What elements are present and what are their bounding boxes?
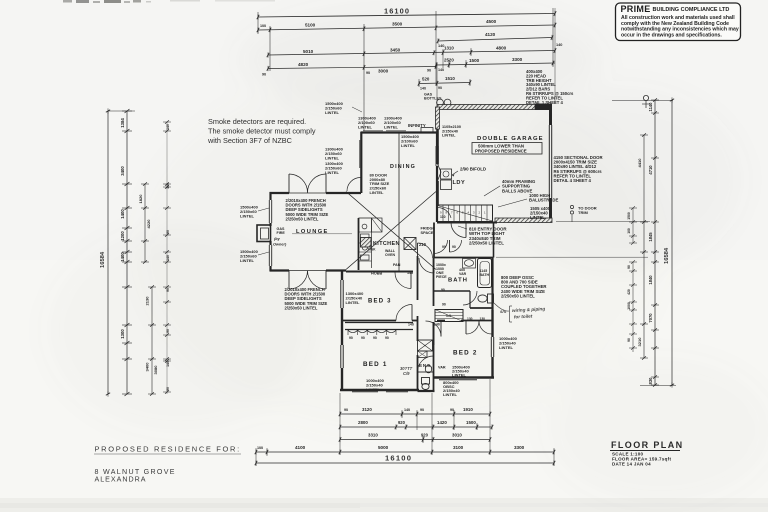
svg-text:100: 100	[627, 228, 631, 234]
left dimension chain	[126, 111, 128, 394]
svg-text:BUILDING COMPLIANCE LTD: BUILDING COMPLIANCE LTD	[653, 7, 730, 13]
porch entry door arc	[451, 223, 466, 238]
stair entry arc	[438, 208, 452, 218]
garage bottom wall hatched	[495, 218, 552, 223]
svg-text:3010: 3010	[452, 433, 462, 438]
svg-text:SPACE: SPACE	[421, 231, 434, 235]
ceiling diagonals	[346, 192, 436, 270]
svg-text:BED 3: BED 3	[368, 299, 392, 305]
svg-text:2/250x50 LINTEL: 2/250x50 LINTEL	[469, 241, 504, 246]
svg-text:1400: 1400	[120, 209, 125, 219]
svg-text:2130: 2130	[145, 296, 150, 306]
bottom dimension line 3120 1910	[340, 413, 490, 415]
svg-text:140: 140	[434, 323, 440, 327]
ens basin	[425, 365, 431, 373]
ens nook bottom wall	[418, 390, 435, 392]
svg-text:LINTEL: LINTEL	[325, 110, 340, 115]
svg-text:VAR: VAR	[459, 272, 467, 276]
bed wing left exterior wall	[341, 271, 343, 281]
svg-text:3300: 3300	[514, 445, 525, 450]
ens toilet	[422, 378, 430, 385]
kitchen sink	[362, 224, 367, 229]
svg-text:16584: 16584	[664, 247, 670, 264]
left sub chain 1820 4220	[144, 184, 146, 262]
right chain top symbol	[643, 95, 648, 100]
lounge french doors bottom	[288, 271, 290, 290]
svg-text:2/250x50 LINTEL: 2/250x50 LINTEL	[501, 293, 535, 298]
top dimension line 5010 3450 1310 4800	[268, 51, 555, 56]
svg-text:90: 90	[627, 265, 631, 269]
svg-text:LINTEL: LINTEL	[442, 134, 456, 138]
lounge left wall	[269, 192, 271, 200]
svg-text:16100: 16100	[384, 7, 410, 16]
svg-text:3100: 3100	[453, 445, 464, 450]
svg-text:(by: (by	[274, 237, 281, 241]
svg-text:1910: 1910	[463, 407, 473, 412]
svg-text:LINTEL: LINTEL	[401, 143, 416, 148]
svg-text:140: 140	[166, 361, 170, 367]
dining top wall	[361, 131, 438, 133]
bed1 robe scallops	[348, 330, 358, 333]
svg-text:140: 140	[166, 255, 170, 261]
svg-text:520: 520	[422, 77, 430, 82]
svg-text:830: 830	[648, 377, 653, 385]
svg-text:1300: 1300	[120, 329, 125, 339]
infinity unit	[421, 128, 433, 133]
bed2 top wall	[437, 320, 445, 322]
dining kitchen divider	[398, 133, 400, 271]
svg-text:16100: 16100	[385, 454, 412, 463]
svg-text:140: 140	[420, 87, 426, 91]
entry hall walls	[433, 223, 435, 259]
kitchen upper bench	[372, 218, 383, 232]
svg-text:BOTTLES: BOTTLES	[424, 97, 442, 101]
svg-text:LINTEL: LINTEL	[499, 345, 514, 350]
svg-text:1820: 1820	[138, 194, 143, 204]
hall east wall	[433, 258, 435, 306]
svg-text:Smoke detectors are required.: Smoke detectors are required.	[208, 117, 306, 126]
svg-text:7070: 7070	[648, 313, 653, 323]
svg-text:140: 140	[407, 271, 413, 275]
svg-text:110: 110	[440, 215, 446, 219]
svg-text:5010: 5010	[303, 49, 314, 54]
right sub chain 4410 3210	[643, 135, 645, 358]
svg-text:TRIM: TRIM	[578, 210, 588, 215]
bath top wall	[434, 257, 493, 259]
svg-text:LINTEL: LINTEL	[358, 124, 373, 129]
left tick chain with 140 90 labels	[166, 122, 168, 394]
svg-text:3080: 3080	[153, 365, 158, 375]
svg-text:1140: 1140	[648, 102, 653, 112]
svg-text:5000: 5000	[378, 445, 389, 450]
top dimension line 4120	[438, 38, 552, 42]
svg-text:90: 90	[450, 408, 454, 412]
svg-text:4820: 4820	[298, 62, 309, 67]
to door trim note	[570, 205, 573, 208]
svg-text:LOUNGE: LOUNGE	[296, 229, 329, 235]
dining door arc	[347, 178, 361, 192]
top dimension line 4820 3000	[268, 67, 436, 69]
svg-text:KITCHEN: KITCHEN	[373, 241, 400, 247]
bath vanity	[463, 259, 476, 269]
svg-text:with Section 3F7 of NZBC: with Section 3F7 of NZBC	[207, 136, 292, 145]
svg-text:PRIME: PRIME	[621, 4, 651, 14]
svg-text:3400: 3400	[120, 166, 125, 176]
bed wing bottom wall	[340, 389, 419, 391]
svg-text:140: 140	[166, 124, 170, 130]
porch right wall	[493, 223, 495, 258]
PRIME Building Compliance stamp box	[616, 3, 741, 41]
svg-text:130: 130	[480, 317, 486, 321]
svg-text:BED 2: BED 2	[453, 350, 478, 357]
svg-text:2/90 BIFOLD: 2/90 BIFOLD	[460, 167, 486, 172]
hall west wall	[417, 272, 419, 300]
svg-text:LDY: LDY	[453, 180, 466, 186]
ens east wall	[433, 322, 435, 345]
svg-text:LINTEL: LINTEL	[240, 213, 255, 218]
svg-text:1845: 1845	[648, 232, 653, 242]
svg-text:90: 90	[385, 336, 389, 340]
svg-text:90: 90	[166, 329, 170, 333]
svg-text:1500: 1500	[469, 58, 480, 63]
svg-text:3120: 3120	[362, 407, 372, 412]
svg-text:BATH: BATH	[480, 273, 490, 277]
bed2 robe double doors	[465, 321, 467, 335]
garage right wall	[549, 104, 552, 125]
bottom dimension line 2800 920 1420 1500	[340, 426, 492, 428]
bottom dimension line 3310 920 3010	[340, 439, 490, 441]
svg-text:100: 100	[257, 446, 263, 450]
svg-text:90: 90	[361, 336, 365, 340]
svg-text:4120: 4120	[485, 32, 496, 37]
svg-text:1500: 1500	[466, 420, 476, 425]
bed3 door arcs	[411, 305, 413, 321]
svg-text:130: 130	[467, 317, 473, 321]
gas fire bump	[257, 225, 271, 242]
svg-text:3310: 3310	[368, 433, 378, 438]
svg-text:ALEXANDRA: ALEXANDRA	[95, 476, 147, 484]
svg-text:90: 90	[627, 338, 631, 342]
handwritten toilet note	[494, 303, 509, 311]
svg-text:420: 420	[627, 289, 631, 295]
svg-text:VAR: VAR	[438, 366, 446, 370]
svg-text:90: 90	[166, 230, 170, 234]
svg-text:90: 90	[166, 387, 170, 391]
svg-text:BATH: BATH	[448, 278, 468, 284]
svg-text:LINTEL: LINTEL	[366, 387, 381, 392]
bottom dimension line 16100	[256, 462, 554, 464]
bottom dimension extension lines	[339, 393, 341, 455]
svg-text:90: 90	[373, 336, 377, 340]
svg-text:PROPOSED RESIDENCE FOR:: PROPOSED RESIDENCE FOR:	[95, 445, 241, 454]
svg-text:90: 90	[452, 245, 456, 249]
svg-text:s/s: s/s	[500, 309, 507, 314]
svg-text:4710: 4710	[648, 165, 653, 175]
dining right wall	[436, 132, 438, 146]
svg-text:The smoke detector must comply: The smoke detector must comply	[208, 127, 316, 136]
svg-text:920: 920	[421, 433, 429, 438]
bed1 door arc	[418, 371, 434, 373]
bath bottom wall	[434, 290, 470, 292]
hall door arcs	[433, 240, 435, 254]
svg-text:2/250x50 LINTEL: 2/250x50 LINTEL	[286, 216, 319, 221]
svg-text:occur in the drawings and spec: occur in the drawings and specifications…	[621, 32, 722, 38]
svg-text:4410: 4410	[637, 158, 642, 168]
top dimension line 520 1510	[419, 83, 470, 84]
bed2 bottom wall	[433, 376, 494, 378]
svg-text:for toilet: for toilet	[514, 314, 533, 320]
svg-text:FLOOR PLAN: FLOOR PLAN	[611, 440, 684, 450]
right chain extension lines	[612, 100, 673, 102]
lounge french doors top	[288, 174, 290, 193]
bath right exterior wall	[491, 258, 493, 311]
svg-text:1200: 1200	[120, 231, 125, 241]
right outer dimension line 16584	[671, 100, 673, 385]
svg-text:DOUBLE GARAGE: DOUBLE GARAGE	[477, 136, 544, 142]
svg-text:1384: 1384	[120, 118, 125, 128]
svg-text:90: 90	[349, 336, 353, 340]
svg-text:LINTEL: LINTEL	[452, 373, 467, 378]
svg-text:4220: 4220	[146, 219, 151, 229]
bath tub	[478, 259, 492, 288]
svg-text:3210: 3210	[637, 337, 642, 347]
svg-text:BED 1: BED 1	[363, 361, 388, 368]
svg-text:90: 90	[262, 73, 266, 77]
svg-text:3500: 3500	[392, 21, 403, 26]
svg-text:3000: 3000	[378, 69, 389, 74]
left sub chain 2130 3400 3080	[151, 287, 153, 394]
svg-text:INFINITY: INFINITY	[408, 123, 426, 128]
stair bottom wall	[437, 222, 497, 224]
svg-text:LINTEL: LINTEL	[240, 258, 255, 263]
pantry box	[404, 238, 416, 250]
svg-text:90: 90	[166, 288, 170, 292]
bath door arc	[419, 258, 434, 273]
lounge top wall	[270, 192, 290, 194]
svg-text:LINTEL: LINTEL	[530, 215, 545, 220]
svg-text:920: 920	[398, 420, 406, 425]
svg-text:140: 140	[408, 323, 414, 327]
svg-text:90: 90	[442, 303, 446, 307]
kitchen bottom wall	[346, 271, 413, 273]
svg-text:DATE 14 JAN 04: DATE 14 JAN 04	[612, 462, 651, 467]
top dimension line 100 5100 3500 4500	[258, 25, 555, 30]
svg-text:OVEN: OVEN	[385, 253, 395, 257]
svg-text:3450: 3450	[390, 48, 401, 53]
scan smudge top edge	[63, 0, 72, 3]
svg-text:16584: 16584	[100, 251, 106, 268]
svg-text:BALLS ABOVE: BALLS ABOVE	[502, 188, 532, 193]
svg-text:LINTEL: LINTEL	[325, 155, 340, 160]
svg-text:LINTEL: LINTEL	[443, 392, 458, 397]
lounge bottom wall	[270, 269, 290, 271]
toilet wc	[488, 294, 494, 303]
bed2 hall door arc	[440, 321, 442, 337]
garage top wall hatched	[437, 105, 535, 110]
top dimension extension lines	[257, 12, 259, 34]
svg-text:140: 140	[438, 68, 444, 72]
svg-text:4800: 4800	[496, 45, 507, 50]
svg-text:1510: 1510	[445, 76, 455, 81]
svg-text:140: 140	[166, 183, 170, 189]
bottom dimension line 100 4100 5000 3100 3300	[256, 451, 554, 453]
svg-text:LINTEL: LINTEL	[370, 190, 385, 195]
right dimension chain 4710 1845 1840 7070 830	[654, 100, 656, 385]
svg-text:LINTEL: LINTEL	[384, 124, 399, 129]
hall closet	[418, 340, 433, 351]
svg-text:90: 90	[427, 69, 431, 73]
svg-text:PIECE: PIECE	[436, 275, 447, 279]
top dimension line 2520 1500 3300	[436, 63, 555, 65]
svg-text:LINTEL: LINTEL	[346, 300, 361, 305]
svg-text:C/9: C/9	[403, 371, 410, 376]
svg-text:140: 140	[404, 408, 410, 412]
garage left wall hatched	[436, 107, 440, 129]
svg-text:1840: 1840	[648, 275, 653, 285]
shower tray hatched	[435, 310, 463, 322]
svg-text:140: 140	[556, 43, 562, 47]
svg-text:DETAIL 4 SHEET 4: DETAIL 4 SHEET 4	[554, 178, 592, 183]
top dimension line 16100	[258, 14, 555, 18]
svg-text:3300: 3300	[512, 57, 523, 62]
scan band bottom edge	[0, 498, 768, 512]
laundry fixtures	[441, 169, 452, 179]
svg-text:4500: 4500	[486, 19, 497, 24]
svg-text:1400: 1400	[120, 252, 125, 262]
svg-text:PROPOSED RESIDENCE: PROPOSED RESIDENCE	[475, 148, 527, 153]
garage lower-than box	[472, 143, 542, 155]
svg-text:100: 100	[260, 24, 266, 28]
bed3 bottom wall	[342, 320, 396, 322]
stair flight	[438, 205, 493, 222]
svg-text:2/250x50 LINTEL: 2/250x50 LINTEL	[285, 305, 318, 310]
wc door arc	[463, 291, 477, 305]
svg-text:4100: 4100	[295, 445, 306, 450]
svg-text:FIRE: FIRE	[277, 231, 286, 235]
bed2 right exterior wall	[491, 310, 493, 337]
svg-text:1-3: 1-3	[446, 314, 451, 318]
svg-text:PAN: PAN	[393, 263, 401, 267]
svg-text:90: 90	[438, 86, 442, 90]
dining left wall	[360, 132, 362, 193]
right inner tick chain	[632, 208, 634, 243]
svg-text:5100: 5100	[305, 23, 316, 28]
svg-text:1000: 1000	[627, 302, 631, 310]
svg-text:SINK: SINK	[368, 248, 377, 252]
svg-text:1420: 1420	[437, 420, 447, 425]
kitchen wall and bench	[358, 218, 360, 270]
svg-text:DINING: DINING	[390, 164, 416, 170]
svg-text:1310: 1310	[444, 46, 454, 51]
bed1 robe wall	[345, 322, 413, 324]
svg-text:90: 90	[420, 408, 424, 412]
svg-text:BALUSTRADE: BALUSTRADE	[529, 198, 558, 203]
left outer dimension line 16584	[107, 111, 109, 394]
svg-text:90: 90	[344, 408, 348, 412]
svg-text:LINTEL: LINTEL	[325, 170, 340, 175]
svg-text:90: 90	[366, 71, 370, 75]
svg-text:3400: 3400	[145, 362, 150, 372]
svg-text:1500: 1500	[627, 212, 631, 220]
svg-text:Owner): Owner)	[273, 243, 287, 247]
svg-text:2800: 2800	[358, 420, 368, 425]
